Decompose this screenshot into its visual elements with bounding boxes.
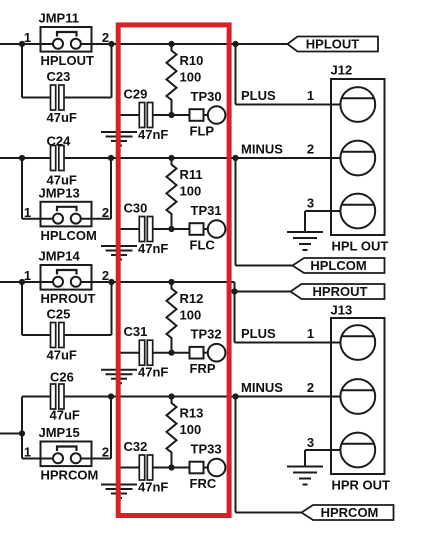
wire C31 to node FRP (153, 352, 172, 354)
svg-text:TP30: TP30 (191, 89, 222, 104)
J12 pin 3 number (307, 196, 314, 211)
svg-text:TP32: TP32 (191, 327, 222, 342)
wire JMP13 loop right vertical (110, 158, 112, 219)
wire R11 top to HPLCOM branch (172, 157, 236, 159)
svg-text:C23: C23 (47, 69, 71, 84)
svg-text:MINUS: MINUS (241, 142, 283, 157)
wire row4 node to R13 top (111, 396, 172, 398)
junction node FLP (168, 112, 174, 118)
junction node HPLCOM branch (232, 155, 238, 161)
JMP11 pin 2 number (102, 30, 109, 45)
JMP15 pin 1 number (24, 445, 31, 460)
JMP15 ref label (39, 425, 80, 440)
svg-text:TP31: TP31 (191, 203, 222, 218)
wire C24 to node (64, 157, 111, 159)
JMP11 pin 1 number (24, 30, 31, 45)
svg-text:47uF: 47uF (47, 110, 77, 125)
wire MINUS wire to J13 pin2 (236, 396, 342, 398)
junction node R13 top (168, 393, 174, 399)
svg-text:47nF: 47nF (138, 480, 168, 495)
wire C25 right plate to loop (64, 334, 112, 336)
junction node HPRCOM branch (232, 393, 238, 399)
junction row4 node stub (19, 430, 25, 436)
C24 value label 47uF (47, 173, 77, 188)
junction row3 node at JMP14 pin1 (19, 279, 25, 285)
wire row3 jog vertical (234, 282, 236, 292)
R12 value label 100 (180, 308, 202, 323)
PLUS label J13 (241, 326, 276, 341)
TP31 net name label FLC (190, 238, 216, 253)
JMP13 pin 1 number (24, 205, 31, 220)
wire row3 node to R12 top (112, 281, 172, 283)
resistor R12 (167, 282, 177, 353)
ground (101, 468, 137, 499)
wire HPROUT branch vertical to PLUS (234, 292, 236, 343)
JMP14 ref label (39, 249, 81, 264)
wire C23 right plate to loop (64, 97, 112, 99)
red highlight rectangle (118, 25, 229, 516)
R10 ref label (180, 53, 204, 68)
wire JMP13 pin2 to loop (81, 218, 111, 220)
J13 pin 3 number (307, 435, 314, 450)
C24 ref label (47, 134, 72, 149)
R11 ref label (180, 167, 203, 182)
svg-text:HPLOUT: HPLOUT (41, 53, 95, 68)
svg-text:2: 2 (307, 380, 314, 395)
MINUS label J13 (241, 380, 283, 395)
connector J12 ref label (331, 63, 353, 78)
wire C23 loop right vertical (111, 44, 113, 98)
svg-text:C30: C30 (124, 201, 148, 216)
svg-text:1: 1 (24, 205, 31, 220)
wire C30 to node FLC (153, 228, 172, 230)
wire node FRP to TP32 (172, 352, 190, 354)
net label HPLOUT (288, 37, 379, 52)
connector J13 body (331, 318, 385, 474)
C26 ref label (50, 370, 74, 385)
svg-text:100: 100 (180, 184, 202, 199)
wire node FLC to TP31 (172, 228, 190, 230)
resistor R13 (167, 397, 177, 468)
J12 pin 2 screw terminal (340, 141, 375, 176)
TP30 ref label (191, 89, 222, 104)
test point TP31 (190, 220, 226, 238)
TP32 ref label (191, 327, 222, 342)
J13 pin 1 screw terminal (340, 325, 375, 360)
svg-text:TP33: TP33 (191, 442, 222, 457)
svg-text:2: 2 (102, 30, 109, 45)
wire row4 left stub (0, 433, 22, 435)
wire C25 loop left vertical (21, 282, 23, 335)
svg-text:PLUS: PLUS (241, 88, 276, 103)
svg-text:C32: C32 (124, 439, 148, 454)
svg-text:HPRCOM: HPRCOM (41, 468, 99, 483)
R13 ref label (180, 406, 204, 421)
R10 value label 100 (180, 70, 202, 85)
J12 pin 3 screw terminal (340, 194, 375, 229)
svg-text:JMP11: JMP11 (39, 11, 79, 26)
wire JMP11 pin2 to node (81, 43, 112, 45)
svg-text:R11: R11 (180, 167, 203, 182)
svg-text:100: 100 (180, 422, 202, 437)
junction node R11 top (168, 155, 174, 161)
svg-text:47nF: 47nF (138, 365, 168, 380)
J12 pin 2 number (307, 142, 314, 157)
wire node FRC to TP33 (172, 467, 190, 469)
C31 ref label (124, 324, 148, 339)
C25 value label 47uF (47, 348, 77, 363)
TP31 ref label (191, 203, 222, 218)
svg-text:R13: R13 (180, 406, 204, 421)
capacitor C30 (139, 217, 152, 242)
svg-text:47nF: 47nF (138, 127, 168, 142)
wire HPRCOM branch vertical (235, 397, 237, 513)
junction node FLC (168, 226, 174, 232)
wire C31 ground lead (119, 352, 139, 354)
svg-text:1: 1 (24, 268, 31, 283)
MINUS label (241, 142, 283, 157)
svg-text:C26: C26 (50, 370, 74, 385)
C30 value label 47nF (138, 241, 168, 256)
svg-text:PLUS: PLUS (241, 326, 276, 341)
junction node FRP (168, 350, 174, 356)
wire node to HPLOUT flag (236, 43, 288, 45)
svg-text:1: 1 (24, 30, 31, 45)
svg-text:HPLCOM: HPLCOM (310, 258, 366, 273)
J13 pin 2 number (307, 380, 314, 395)
wire row1 junction to JMP11 pin1 (22, 43, 53, 45)
svg-text:47nF: 47nF (138, 241, 168, 256)
wire node to HPROUT flag (235, 291, 291, 293)
net label HPLCOM (293, 258, 385, 273)
svg-text:FRC: FRC (190, 476, 217, 491)
wire J12 pin3 to ground bend (305, 210, 341, 212)
J13 pin 2 screw terminal (340, 379, 375, 414)
svg-text:HPROUT: HPROUT (41, 291, 96, 306)
wire PLUS wire to J13 pin1 (235, 342, 342, 344)
capacitor C24 (51, 146, 65, 171)
wire JMP14 pin2 to node (81, 281, 112, 283)
JMP14 pin 2 number (102, 268, 109, 283)
svg-text:1: 1 (307, 326, 314, 341)
wire node to C26 left plate (22, 396, 51, 398)
C25 ref label (47, 307, 71, 322)
svg-text:FLP: FLP (190, 124, 215, 139)
svg-text:2: 2 (102, 445, 109, 460)
ground (287, 467, 323, 485)
C31 value label 47nF (138, 365, 168, 380)
wire row2 left stub (0, 157, 51, 159)
junction row4 node at C26 right (108, 393, 114, 399)
capacitor C25 (51, 323, 65, 348)
J13 pin 1 number (307, 326, 314, 341)
capacitor C23 (51, 85, 65, 110)
wire C26 right plate to node (64, 396, 111, 398)
net label HPRCOM (302, 505, 394, 520)
jumper JMP14 (41, 265, 92, 290)
R12 ref label (180, 291, 204, 306)
JMP15 net name label HPRCOM (41, 468, 99, 483)
wire R12 top to bend (172, 281, 235, 283)
test point TP30 (190, 106, 226, 124)
wire row4 loop right vertical (110, 397, 112, 459)
svg-text:HPLOUT: HPLOUT (306, 37, 360, 52)
svg-text:C25: C25 (47, 307, 71, 322)
wire J12 pin3 ground vertical (304, 211, 306, 232)
svg-text:100: 100 (180, 308, 202, 323)
svg-text:FRP: FRP (190, 361, 216, 376)
svg-text:C24: C24 (47, 134, 72, 149)
svg-text:1: 1 (307, 88, 314, 103)
svg-text:C29: C29 (124, 87, 148, 102)
wire C32 ground lead (119, 467, 139, 469)
connector J13 ref label (331, 303, 353, 318)
wire row1 node HPLOUT to R10 top (112, 43, 172, 45)
JMP13 pin 2 number (102, 205, 109, 220)
svg-text:3: 3 (307, 196, 314, 211)
junction node R10 top (168, 41, 174, 47)
junction row3 node at JMP14 pin2 (108, 279, 114, 285)
wire J13 pin3 ground vertical (304, 450, 306, 466)
C26 value label 47uF (50, 408, 80, 423)
TP33 ref label (191, 442, 222, 457)
junction node R12 top (168, 279, 174, 285)
svg-text:HPLCOM: HPLCOM (41, 228, 97, 243)
svg-text:2: 2 (102, 205, 109, 220)
junction row1 node at JMP11 pin1 (19, 41, 25, 47)
svg-text:100: 100 (180, 70, 202, 85)
TP33 net name label FRC (190, 476, 217, 491)
JMP15 pin 2 number (102, 445, 109, 460)
capacitor C29 (139, 103, 152, 128)
wire HPLOUT branch vertical to PLUS (235, 44, 237, 105)
connector J12 body (331, 79, 385, 235)
svg-text:JMP13: JMP13 (39, 185, 80, 200)
wire R10 top to HPLOUT branch (172, 43, 236, 45)
wire C29 ground lead (119, 114, 139, 116)
junction node HPLOUT branch (232, 41, 238, 47)
wire to HPRCOM flag (236, 512, 302, 514)
svg-text:3: 3 (307, 435, 314, 450)
wire J13 pin3 to ground bend (305, 449, 341, 451)
wire loop to JMP15 pin1 (22, 458, 53, 460)
wire row3 junction to JMP14 pin1 (22, 281, 53, 283)
JMP13 ref label (39, 185, 80, 200)
C23 value label 47uF (47, 110, 77, 125)
wire MINUS wire to J12 pin2 (236, 157, 342, 159)
J13 name label HPR OUT (332, 478, 391, 493)
svg-text:C31: C31 (124, 324, 148, 339)
wire C30 ground lead (119, 228, 139, 230)
JMP14 pin 1 number (24, 268, 31, 283)
svg-text:HPRCOM: HPRCOM (321, 505, 379, 520)
test point TP32 (190, 344, 226, 362)
svg-text:R10: R10 (180, 53, 204, 68)
svg-text:47uF: 47uF (50, 408, 80, 423)
capacitor C26 (51, 384, 65, 409)
svg-text:R12: R12 (180, 291, 204, 306)
wire node to C23 left plate (22, 97, 51, 99)
svg-text:JMP14: JMP14 (39, 249, 81, 264)
wire node FLP to TP30 (172, 114, 190, 116)
wire node to C25 left plate (22, 334, 51, 336)
JMP14 net name label HPROUT (41, 291, 96, 306)
TP30 net name label FLP (190, 124, 215, 139)
J12 pin 1 number (307, 88, 314, 103)
wire row3 left stub (0, 281, 22, 283)
svg-text:2: 2 (307, 142, 314, 157)
capacitor C32 (139, 455, 152, 480)
JMP11 ref label (39, 11, 79, 26)
R13 value label 100 (180, 422, 202, 437)
test point TP33 (190, 459, 226, 477)
junction row2 node at C24 left (19, 155, 25, 161)
J12 pin 1 screw terminal (340, 87, 375, 122)
wire JMP13 loop left vertical (21, 158, 23, 219)
C29 ref label (124, 87, 148, 102)
svg-text:JMP15: JMP15 (39, 425, 80, 440)
JMP11 net name label HPLOUT (41, 53, 95, 68)
C23 ref label (47, 69, 71, 84)
junction node HPROUT branch (231, 288, 237, 294)
C32 ref label (124, 439, 148, 454)
svg-text:2: 2 (102, 268, 109, 283)
wire C32 to node FRC (153, 467, 172, 469)
PLUS label (241, 88, 276, 103)
resistor R11 (167, 158, 177, 229)
svg-text:HPL OUT: HPL OUT (332, 239, 389, 254)
svg-text:J13: J13 (331, 303, 353, 318)
wire R13 top to HPRCOM branch (172, 396, 236, 398)
JMP13 net name label HPLCOM (41, 228, 97, 243)
svg-text:J12: J12 (331, 63, 353, 78)
svg-text:FLC: FLC (190, 238, 216, 253)
wire row4 loop left vertical (21, 397, 23, 459)
C29 value label 47nF (138, 127, 168, 142)
ground (101, 353, 137, 384)
wire HPLCOM branch vertical (235, 158, 237, 266)
ground (101, 115, 137, 146)
TP32 net name label FRP (190, 361, 216, 376)
resistor R10 (167, 44, 177, 115)
C30 ref label (124, 201, 148, 216)
wire C25 loop right vertical (111, 282, 113, 335)
jumper JMP13 (41, 202, 92, 227)
wire JMP15 pin2 to loop (81, 458, 111, 460)
wire PLUS wire to J12 pin1 (236, 104, 342, 106)
svg-text:47uF: 47uF (47, 348, 77, 363)
C32 value label 47nF (138, 480, 168, 495)
wire loop to JMP13 pin1 (22, 218, 53, 220)
wire C29 to node FLP (153, 114, 172, 116)
svg-text:HPROUT: HPROUT (313, 284, 368, 299)
wire C23 loop left vertical (21, 44, 23, 98)
J12 name label HPL OUT (332, 239, 389, 254)
net label HPROUT (291, 284, 385, 299)
ground (101, 229, 137, 260)
svg-text:1: 1 (24, 445, 31, 460)
J13 pin 3 screw terminal (340, 433, 375, 468)
svg-text:HPR OUT: HPR OUT (332, 478, 391, 493)
junction row1 node at JMP11 pin2 (108, 41, 114, 47)
wire to HPLCOM flag (236, 265, 293, 267)
R11 value label 100 (180, 184, 202, 199)
wire row1 left stub (0, 43, 22, 45)
svg-text:MINUS: MINUS (241, 380, 283, 395)
ground (287, 232, 323, 250)
jumper JMP11 (41, 27, 92, 52)
junction node FRC (168, 464, 174, 470)
junction row2 node at JMP13 branch (108, 155, 114, 161)
wire row2 node to R11 top (111, 157, 172, 159)
capacitor C31 (139, 340, 152, 365)
jumper JMP15 (41, 442, 92, 467)
